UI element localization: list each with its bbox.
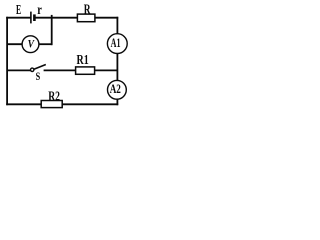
battery E long plate <box>30 12 32 24</box>
switch S contact circle <box>31 68 34 71</box>
svg-text:A2: A2 <box>110 81 121 96</box>
svg-text:R1: R1 <box>77 52 89 67</box>
switch branch wire left <box>7 69 31 71</box>
ammeter A1 <box>107 34 127 54</box>
wire top-right (battery to R to right corner) <box>34 17 118 19</box>
wire right vertical <box>116 17 118 105</box>
svg-text:S: S <box>36 69 41 83</box>
voltmeter V <box>22 36 39 53</box>
resistor R2 box <box>41 101 62 108</box>
ammeter A2 <box>108 80 127 99</box>
switch branch wire right <box>44 69 118 71</box>
voltmeter branch wire left <box>7 43 24 45</box>
wire top-left (battery feed) <box>6 17 31 19</box>
svg-text:R2: R2 <box>48 88 60 103</box>
svg-text:R: R <box>84 2 91 18</box>
svg-text:A1: A1 <box>111 35 121 50</box>
resistor R box <box>77 14 95 22</box>
wire left vertical <box>6 17 8 105</box>
svg-text:E: E <box>16 3 21 18</box>
voltmeter branch wire right <box>37 43 52 45</box>
voltmeter branch wire up <box>51 15 53 45</box>
battery E short plate <box>33 14 36 21</box>
svg-text:V: V <box>28 37 35 51</box>
switch S blade <box>34 65 46 70</box>
svg-text:r: r <box>37 2 42 17</box>
resistor R1 box <box>76 67 95 74</box>
wire bottom <box>6 103 118 105</box>
